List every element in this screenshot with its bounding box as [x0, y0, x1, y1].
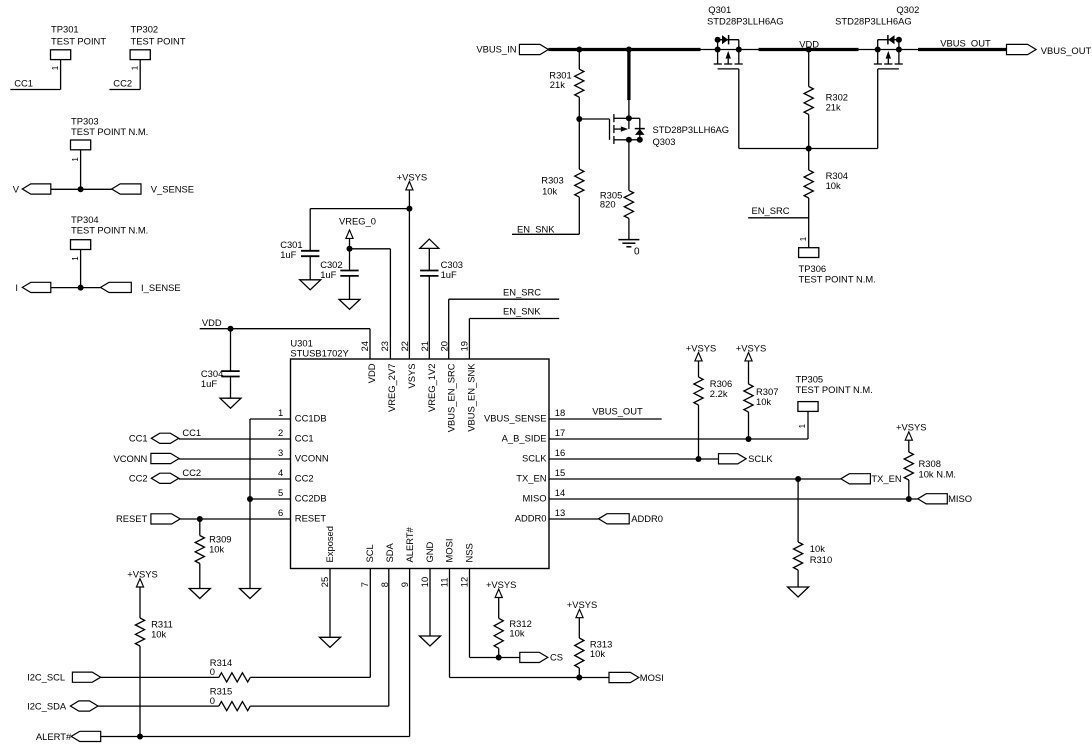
svg-text:I2C_SDA: I2C_SDA	[27, 700, 67, 711]
svg-text:19: 19	[459, 341, 470, 351]
svg-text:MOSI: MOSI	[640, 672, 664, 683]
svg-text:Q301: Q301	[708, 4, 731, 15]
svg-text:ADDR0: ADDR0	[515, 512, 547, 523]
svg-text:ADDR0: ADDR0	[631, 513, 663, 524]
svg-text:TP303: TP303	[71, 115, 99, 126]
svg-text:V: V	[13, 184, 20, 195]
svg-text:1: 1	[799, 236, 808, 241]
svg-text:VREG_0: VREG_0	[339, 216, 376, 227]
svg-text:STD28P3LLH6AG: STD28P3LLH6AG	[653, 124, 730, 135]
svg-text:VREG_2V7: VREG_2V7	[386, 364, 397, 412]
svg-text:10: 10	[419, 577, 430, 587]
svg-text:TEST POINT N.M.: TEST POINT N.M.	[799, 274, 876, 285]
svg-text:2.2k: 2.2k	[710, 388, 728, 399]
svg-text:15: 15	[555, 467, 565, 478]
svg-text:TP302: TP302	[131, 24, 159, 35]
svg-text:EN_SNK: EN_SNK	[503, 306, 541, 317]
svg-text:21: 21	[419, 341, 430, 351]
svg-text:TEST POINT: TEST POINT	[131, 36, 186, 47]
svg-text:TX_EN: TX_EN	[516, 472, 546, 483]
svg-text:VBUS_OUT: VBUS_OUT	[1041, 45, 1092, 56]
svg-text:11: 11	[438, 577, 449, 587]
svg-text:+VSYS: +VSYS	[736, 342, 767, 353]
svg-text:CC2: CC2	[113, 78, 132, 89]
svg-text:CC1: CC1	[295, 432, 314, 443]
svg-text:VCONN: VCONN	[113, 453, 147, 464]
svg-text:TEST POINT N.M.: TEST POINT N.M.	[71, 126, 148, 137]
svg-text:CC2DB: CC2DB	[295, 492, 327, 503]
svg-text:CC2: CC2	[295, 472, 314, 483]
svg-text:1: 1	[51, 65, 60, 70]
svg-text:CC1: CC1	[14, 78, 33, 89]
svg-text:20: 20	[439, 341, 450, 351]
svg-text:VBUS_OUT: VBUS_OUT	[592, 406, 643, 417]
svg-text:TEST POINT N.M.: TEST POINT N.M.	[71, 225, 148, 236]
svg-text:TP306: TP306	[799, 263, 827, 274]
svg-text:R310: R310	[810, 554, 832, 565]
svg-text:VSYS: VSYS	[406, 364, 417, 389]
svg-text:1: 1	[130, 65, 139, 70]
svg-text:TX_EN: TX_EN	[871, 473, 901, 484]
svg-text:STD28P3LLH6AG: STD28P3LLH6AG	[707, 16, 784, 27]
svg-text:ALERT#: ALERT#	[404, 526, 415, 562]
svg-text:EN_SRC: EN_SRC	[503, 286, 541, 297]
svg-text:1: 1	[71, 157, 80, 162]
svg-text:TEST POINT N.M.: TEST POINT N.M.	[796, 384, 873, 395]
svg-text:+VSYS: +VSYS	[896, 422, 927, 433]
svg-text:820: 820	[600, 199, 616, 210]
svg-text:10k: 10k	[542, 185, 557, 196]
svg-text:10k: 10k	[509, 627, 524, 638]
svg-text:14: 14	[555, 487, 565, 498]
svg-text:I_SENSE: I_SENSE	[141, 282, 181, 293]
svg-text:Q303: Q303	[653, 136, 676, 147]
svg-text:CC2: CC2	[182, 467, 201, 478]
svg-text:STD28P3LLH6AG: STD28P3LLH6AG	[835, 16, 912, 27]
svg-text:CC1DB: CC1DB	[295, 412, 327, 423]
svg-text:+VSYS: +VSYS	[486, 579, 517, 590]
svg-text:+VSYS: +VSYS	[127, 568, 158, 579]
svg-text:2: 2	[278, 427, 283, 438]
svg-text:V_SENSE: V_SENSE	[151, 184, 194, 195]
svg-text:MISO: MISO	[948, 493, 972, 504]
svg-text:16: 16	[555, 447, 565, 458]
svg-text:VDD: VDD	[366, 363, 377, 383]
svg-text:CC2: CC2	[129, 473, 148, 484]
svg-text:I2C_SCL: I2C_SCL	[27, 672, 65, 683]
svg-text:10k: 10k	[756, 396, 771, 407]
svg-text:R303: R303	[541, 175, 563, 186]
svg-text:1: 1	[71, 256, 80, 261]
svg-text:24: 24	[359, 341, 370, 351]
svg-text:+VSYS: +VSYS	[567, 599, 598, 610]
svg-text:EN_SNK: EN_SNK	[517, 224, 555, 235]
svg-text:10k: 10k	[826, 180, 841, 191]
svg-text:17: 17	[555, 427, 565, 438]
svg-text:+VSYS: +VSYS	[686, 342, 717, 353]
svg-text:9: 9	[399, 582, 410, 587]
svg-text:RESET: RESET	[295, 512, 327, 523]
svg-text:CC1: CC1	[129, 433, 148, 444]
svg-text:0: 0	[634, 246, 640, 257]
svg-text:23: 23	[379, 341, 390, 351]
svg-text:0: 0	[210, 666, 215, 677]
svg-text:0: 0	[210, 695, 215, 706]
svg-text:STUSB1702Y: STUSB1702Y	[290, 348, 349, 359]
svg-text:NSS: NSS	[464, 543, 475, 562]
svg-text:3: 3	[278, 447, 283, 458]
svg-text:10k: 10k	[590, 648, 605, 659]
svg-text:MISO: MISO	[523, 492, 547, 503]
svg-text:GND: GND	[424, 541, 435, 562]
svg-text:Exposed: Exposed	[324, 526, 335, 562]
svg-text:VBUS_SENSE: VBUS_SENSE	[484, 412, 547, 423]
svg-text:I: I	[15, 282, 18, 293]
svg-text:1uF: 1uF	[201, 378, 217, 389]
svg-text:EN_SRC: EN_SRC	[752, 205, 790, 216]
svg-text:VBUS_EN_SNK: VBUS_EN_SNK	[465, 363, 476, 432]
svg-text:SCLK: SCLK	[748, 453, 773, 464]
svg-text:22: 22	[399, 341, 410, 351]
svg-text:1uF: 1uF	[320, 269, 336, 280]
svg-text:CS: CS	[550, 652, 563, 663]
svg-text:+VSYS: +VSYS	[397, 171, 428, 182]
svg-text:VBUS_EN_SRC: VBUS_EN_SRC	[445, 363, 456, 432]
svg-text:MOSI: MOSI	[444, 539, 455, 563]
svg-text:TEST POINT: TEST POINT	[51, 36, 106, 47]
svg-text:CC1: CC1	[182, 427, 201, 438]
svg-text:7: 7	[359, 582, 370, 587]
svg-text:RESET: RESET	[116, 513, 148, 524]
svg-text:SCL: SCL	[364, 544, 375, 562]
svg-text:SDA: SDA	[384, 542, 395, 562]
svg-text:ALERT#: ALERT#	[36, 731, 72, 742]
svg-text:1uF: 1uF	[280, 249, 296, 260]
svg-text:6: 6	[278, 507, 283, 518]
svg-text:1uF: 1uF	[441, 269, 457, 280]
svg-text:TP304: TP304	[71, 214, 99, 225]
svg-text:12: 12	[458, 577, 469, 587]
svg-text:VREG_1V2: VREG_1V2	[426, 364, 437, 412]
svg-text:VCONN: VCONN	[295, 452, 329, 463]
svg-text:TP305: TP305	[796, 374, 824, 385]
svg-text:1: 1	[278, 407, 283, 418]
svg-text:VBUS_OUT: VBUS_OUT	[940, 38, 991, 49]
svg-text:A_B_SIDE: A_B_SIDE	[502, 432, 547, 443]
svg-text:13: 13	[555, 507, 565, 518]
svg-text:VDD: VDD	[202, 317, 222, 328]
svg-text:4: 4	[278, 467, 283, 478]
svg-text:VBUS_IN: VBUS_IN	[476, 44, 516, 55]
svg-text:SCLK: SCLK	[522, 452, 547, 463]
svg-text:1: 1	[798, 423, 807, 428]
svg-text:10k: 10k	[209, 544, 224, 555]
svg-text:TP301: TP301	[51, 24, 79, 35]
svg-text:18: 18	[555, 407, 565, 418]
svg-text:25: 25	[319, 577, 330, 587]
svg-text:21k: 21k	[826, 101, 841, 112]
svg-text:10k: 10k	[151, 629, 166, 640]
svg-text:10k: 10k	[810, 543, 825, 554]
svg-text:21k: 21k	[550, 79, 565, 90]
svg-text:Q302: Q302	[896, 4, 919, 15]
svg-text:5: 5	[278, 487, 283, 498]
svg-text:10k N.M.: 10k N.M.	[919, 468, 957, 479]
